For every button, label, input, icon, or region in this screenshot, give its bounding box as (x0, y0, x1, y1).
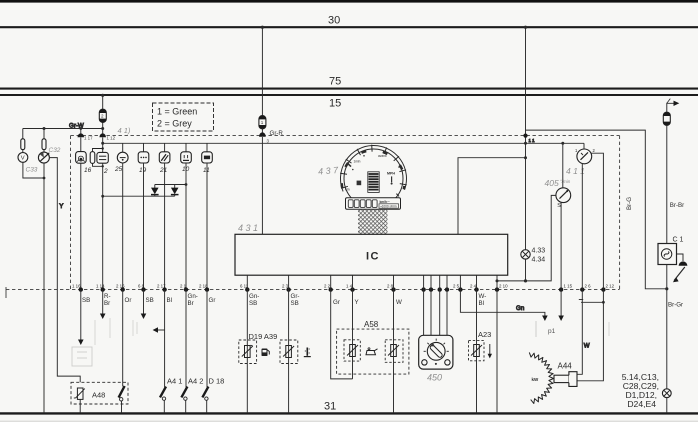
svg-text:W-: W- (479, 293, 487, 300)
warning lamp icon 6 (181, 143, 192, 163)
pin 1 12 entering cluster (arrow) (99, 133, 115, 140)
svg-text:1 4: 1 4 (346, 284, 353, 289)
lamp wires down to connector pins (81, 163, 207, 290)
svg-text:Br-Br: Br-Br (670, 202, 684, 209)
fuse (C32 branch) (42, 129, 46, 150)
bus 75 (0, 76, 698, 89)
connector pins on cluster bottom edge (middle group) (245, 287, 499, 291)
oil can icon (366, 348, 378, 355)
switch D18 (202, 377, 224, 414)
wire C32 down to bus 31 (43, 163, 45, 413)
svg-text:C32: C32 (49, 147, 61, 154)
svg-text:avanti: avanti (378, 154, 387, 158)
svg-text:Br-G: Br-G (626, 197, 633, 210)
wire H1 to fuel gauge top (583, 143, 585, 149)
svg-text:D24,E4: D24,E4 (627, 399, 656, 409)
warning lamp icon 3 (117, 143, 128, 163)
svg-text:D19 A39: D19 A39 (249, 332, 278, 341)
wire Gr-R from bus 30 (261, 26, 264, 116)
svg-text:1 15: 1 15 (564, 284, 573, 289)
speedometer dial marks (345, 154, 400, 196)
svg-text:Bl: Bl (479, 300, 485, 307)
svg-text:2 12: 2 12 (606, 284, 615, 289)
lamp at bottom right (662, 389, 671, 413)
svg-text:Y: Y (355, 299, 359, 306)
speed sensor A44 plug (554, 362, 577, 387)
svg-text:Or: Or (125, 297, 132, 304)
svg-text:R-: R- (104, 293, 111, 300)
svg-text:°/min: °/min (560, 179, 571, 184)
temp gauge 405 (556, 188, 571, 209)
svg-text:A48: A48 (92, 391, 105, 400)
thermometer icon (304, 348, 311, 357)
branch arrow on Bl wire (153, 327, 165, 333)
rheostat wires to 450 (424, 290, 447, 336)
svg-text:21: 21 (159, 167, 168, 174)
svg-text:1 = Green: 1 = Green (157, 107, 197, 117)
svg-text:2 1: 2 1 (180, 284, 187, 289)
clock C32 (38, 150, 49, 164)
sensor A23 (dashed box) (469, 330, 492, 361)
svg-text:1 14: 1 14 (96, 284, 105, 289)
IC pin stub wires (247, 275, 497, 289)
warning lamp icon 2 (battery) with shunt (90, 137, 108, 167)
svg-text:450: 450 (427, 373, 442, 383)
svg-text:Gn-: Gn- (249, 293, 259, 300)
svg-text:Gr-R: Gr-R (270, 130, 284, 137)
warning lamp icon 1 (brake) (76, 137, 87, 163)
wire Or down to A48 switch (122, 290, 124, 387)
svg-text:A44: A44 (558, 362, 573, 371)
svg-text:4.34: 4.34 (532, 257, 546, 264)
svg-text:A58: A58 (364, 320, 379, 329)
svg-text:4 3 1: 4 3 1 (238, 223, 258, 233)
wire 2 5 with Gn branch arrow (460, 290, 547, 321)
svg-text:1 17: 1 17 (84, 136, 93, 141)
toothed wheel at A44 (529, 352, 553, 403)
svg-text:15: 15 (329, 98, 341, 110)
pin numbers (left group) (72, 284, 208, 289)
wire W down to bus 31 (393, 290, 395, 413)
pin 3 Gr-R entering cluster (arrow) (259, 128, 283, 143)
pin numbers (middle group) (240, 284, 508, 289)
svg-text:SB: SB (291, 300, 299, 307)
external loop wire to C1 (526, 130, 669, 290)
lamp 433/434 (521, 248, 545, 264)
voltmeter V (18, 150, 28, 163)
ghost strokes (scan bleed-through) (95, 318, 137, 345)
svg-text:Bl: Bl (167, 297, 173, 304)
wire R-Br stub (arrow) (100, 290, 106, 319)
wire Y down through oil sensor (352, 290, 354, 379)
svg-text:2: 2 (101, 114, 104, 119)
wire IC to temp gauge left pin (497, 195, 556, 281)
switch A41 (160, 377, 182, 414)
pin 1 17 entering cluster (arrow) (78, 127, 94, 140)
svg-text:4 1): 4 1) (118, 126, 131, 135)
svg-text:C 1: C 1 (673, 237, 684, 244)
wire Br-Gr down to C1 (667, 125, 684, 244)
svg-text:Gr-: Gr- (291, 293, 300, 300)
speedometer 437 dial (340, 145, 407, 208)
wire Gr loop down (331, 290, 353, 379)
svg-text:2 8: 2 8 (387, 284, 394, 289)
in-line connector on Gr-R (259, 116, 266, 129)
wire Bl down to switch A41 (164, 290, 166, 388)
svg-text:V: V (21, 156, 25, 162)
wire V to C32 net (23, 162, 45, 179)
svg-text:2: 2 (103, 168, 108, 175)
svg-text:2 2: 2 2 (324, 284, 331, 289)
svg-text:1: 1 (261, 120, 264, 125)
svg-text:Y: Y (59, 203, 63, 210)
diode top rail (155, 183, 188, 186)
svg-text:2 6: 2 6 (585, 284, 592, 289)
connector pins on cluster bottom edge (right group) (559, 287, 606, 291)
svg-text:W: W (396, 299, 402, 306)
wire Y branch from C32 (49, 158, 80, 383)
diode D-b (171, 185, 179, 197)
svg-text:C33: C33 (26, 167, 38, 174)
ribbon cable to IC (358, 209, 388, 234)
warning lamp icon 4 (138, 143, 149, 163)
temp gauge 405 label (545, 178, 571, 188)
oil sensor 2 (dashed sub-box) (385, 340, 403, 363)
svg-text:2 = Grey: 2 = Grey (157, 119, 192, 129)
svg-text:4.33: 4.33 (532, 248, 546, 255)
wire below C1 to bus 31 (667, 265, 683, 390)
wire from bus 15 down at x=103 (101, 94, 104, 134)
svg-text:SB: SB (146, 297, 154, 304)
wire H1 to temp gauge top (562, 143, 564, 188)
speedometer LCD bars (368, 172, 379, 193)
thermistor in A48 (74, 388, 85, 413)
wire W-Bl down through A23 (476, 290, 478, 413)
wire Gn-Br down to switch A42 (185, 290, 187, 388)
wire 2 12 down to speed sensor A44 (577, 290, 603, 381)
bus 31 (0, 401, 698, 414)
wire Gr-SB down to temp sender (288, 290, 290, 413)
svg-text:2 18: 2 18 (199, 284, 208, 289)
svg-text:2 17: 2 17 (157, 284, 166, 289)
svg-text:kW: kW (532, 377, 540, 382)
warning lamp icon 5 (159, 143, 170, 163)
sensor element in temp sender (283, 346, 294, 358)
svg-text:6 8: 6 8 (138, 284, 145, 289)
svg-text:4 3 7: 4 3 7 (318, 165, 340, 177)
svg-text:2 4: 2 4 (470, 284, 477, 289)
pin numbers (right group) (564, 284, 615, 289)
svg-text:19: 19 (139, 167, 147, 174)
svg-text:75: 75 (329, 76, 341, 88)
bus 15 (0, 95, 698, 110)
oil sensors A58 (dashed box) (337, 320, 409, 374)
C1 ground branch (673, 254, 688, 282)
wire Gn-SB down to fuel sender (246, 290, 248, 413)
svg-text:km: km (345, 188, 350, 192)
svg-text:Br: Br (188, 300, 194, 307)
svg-text:30: 30 (328, 15, 340, 27)
wire temp gauge to pin 1 15 (558, 203, 564, 322)
warning lamp icon 7 (202, 143, 213, 163)
svg-text:2 10: 2 10 (499, 284, 508, 289)
dimmer rheostat 450 (419, 335, 453, 382)
faded target box (ghost) (72, 347, 92, 366)
svg-text:Gr: Gr (333, 299, 340, 306)
rheostat element in D19 (242, 345, 253, 357)
svg-text:25: 25 (114, 166, 123, 173)
wire Gr-W horizontal (23, 122, 104, 130)
instrument cluster boundary (dashed box 4.1) (6, 136, 620, 290)
wire Gr down to switch D18 (206, 290, 208, 388)
in-line connector on Gr-W feed (99, 109, 106, 122)
svg-text:A4 1: A4 1 (167, 377, 182, 386)
svg-text:km/h·−: km/h·− (380, 200, 391, 204)
ghost marks near p1 (536, 321, 609, 337)
wire top-right with connector and arrow (667, 99, 680, 126)
svg-text:•1000 r/min: •1000 r/min (381, 204, 397, 208)
svg-text:2 3: 2 3 (282, 284, 289, 289)
wire fuel gauge pin 2 to 2 12 (591, 153, 604, 289)
svg-text:S: S (557, 203, 561, 209)
wire lamp to rail (524, 259, 527, 282)
switch in A48 (119, 386, 125, 413)
top page border (0, 0, 698, 3)
svg-text:16: 16 (84, 167, 92, 174)
switch A42 (181, 377, 203, 414)
wire labels (left group) (82, 293, 215, 307)
svg-text:Gr: Gr (209, 297, 216, 304)
svg-text:SB: SB (249, 300, 257, 307)
jumper between sensor wires (579, 300, 605, 304)
oil sensor 1 (dashed sub-box) (344, 340, 360, 361)
fuel gauge 411 (575, 148, 596, 164)
bus 30 (0, 15, 698, 28)
svg-text:1min: 1min (354, 160, 361, 164)
connector pins on cluster bottom edge (left group) (79, 287, 210, 291)
clock unit C1 (658, 237, 684, 265)
svg-text:W: W (584, 343, 590, 350)
IC unit box (235, 234, 508, 275)
svg-text:Gn: Gn (516, 305, 525, 312)
sender unit A48 (dashed box) (71, 382, 128, 404)
svg-text:2 16: 2 16 (116, 284, 125, 289)
legend box 1=Green 2=Grey (153, 103, 214, 131)
temp sender (dashed box) (280, 340, 298, 364)
wire W down to speed sensor A44 (577, 290, 590, 375)
svg-text:A23: A23 (478, 330, 491, 339)
svg-text:p1: p1 (548, 328, 556, 335)
wire from bus 30 to lamp 433 (523, 26, 535, 250)
svg-text:Br-Gr: Br-Gr (668, 301, 683, 308)
svg-text:Br: Br (104, 300, 110, 307)
bottom scan edge (0, 421, 698, 422)
svg-text:MPH: MPH (387, 172, 395, 176)
svg-text:1 12: 1 12 (107, 136, 116, 141)
diode D-a (151, 185, 159, 197)
fuel sender D19 A39 (dashed box) (239, 332, 277, 364)
reference text block (622, 372, 659, 409)
diode bottom rail (101, 195, 174, 198)
wire 2 10 down to bus 31 (496, 279, 499, 413)
odometer box (346, 198, 401, 210)
svg-text:Gn-: Gn- (188, 293, 198, 300)
svg-text:A4 2: A4 2 (188, 377, 203, 386)
internal supply rail H1 (101, 142, 584, 145)
lamp position numbers (faded) (84, 166, 210, 175)
svg-text:31: 31 (324, 401, 336, 413)
wire labels (middle group) (249, 293, 486, 307)
fuse (left branch) (21, 129, 25, 150)
IC riser wire to gauges rail (458, 156, 527, 234)
svg-text:1 16: 1 16 (72, 284, 81, 289)
svg-text:405: 405 (545, 178, 559, 188)
fuel pump icon (262, 349, 270, 357)
wire SB stub (arrow) (141, 290, 147, 319)
in-line connector top right (663, 112, 670, 125)
svg-text:D 18: D 18 (209, 377, 225, 386)
svg-text:2 5: 2 5 (453, 284, 460, 289)
page edge tick at dashed bottom left (5, 287, 7, 298)
svg-text:SB: SB (82, 297, 90, 304)
arrow mark beside A23 (488, 344, 492, 358)
wire Gr-R to IC (261, 137, 263, 234)
svg-text:IC: IC (366, 251, 380, 263)
svg-text:1 1: 1 1 (529, 138, 536, 143)
wire SB to gauge (arrow) (78, 290, 84, 345)
wire fuel gauge to pin 2 6 (581, 164, 583, 290)
